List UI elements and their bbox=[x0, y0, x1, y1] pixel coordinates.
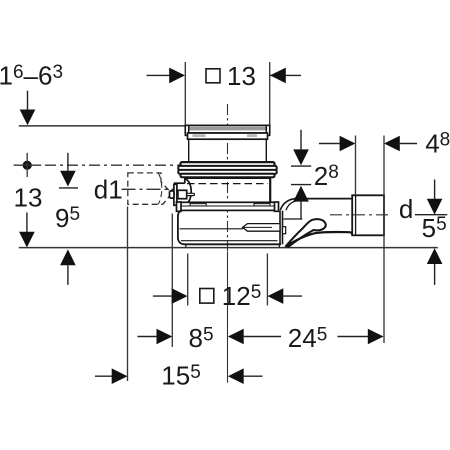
outlet fillet curves bbox=[280, 199, 294, 211]
bowl inner line bbox=[180, 228, 244, 230]
pipe centerline bbox=[330, 214, 390, 216]
d1 centerline dashes bbox=[122, 188, 178, 190]
left inlet clip bump bbox=[170, 191, 175, 198]
collar frame band bbox=[188, 133, 268, 139]
bowl foot ticks bbox=[185, 244, 187, 247]
dimension 5-5 bbox=[427, 180, 443, 285]
left inlet pin bbox=[178, 190, 187, 198]
dashed inlet box d1 bbox=[128, 173, 171, 204]
dimension 8-5 and 24-5 bbox=[138, 329, 384, 345]
left inlet socket bbox=[174, 182, 185, 184]
dimension 15-5 bbox=[95, 368, 263, 384]
13 arrow down bbox=[19, 213, 35, 248]
svg-text:13: 13 bbox=[227, 61, 256, 91]
bowl right wall bbox=[279, 211, 281, 245]
outlet scoop bbox=[286, 219, 326, 247]
arrow 16-63 down bbox=[20, 91, 36, 126]
water level dot marker bbox=[23, 161, 32, 170]
outlet opening inner line bbox=[284, 218, 303, 220]
dimension square-13 top bbox=[147, 68, 302, 84]
outlet rod bbox=[243, 224, 281, 232]
trap body walls bbox=[184, 177, 186, 183]
collar grate cap bbox=[185, 125, 269, 133]
clamp band bbox=[178, 202, 277, 210]
extension lines square-13 bbox=[184, 62, 186, 125]
dimension 4-8 bbox=[319, 136, 417, 152]
water level dashed line bbox=[45, 164, 180, 166]
svg-text:d: d bbox=[399, 194, 413, 224]
floor line bbox=[19, 125, 186, 127]
outlet pipe top bbox=[294, 198, 352, 200]
svg-text:d1: d1 bbox=[94, 174, 123, 204]
bottom reference line bbox=[19, 247, 438, 249]
dimension square 12-5 bbox=[153, 288, 302, 304]
pipe bottom flare bbox=[286, 232, 353, 246]
d tick line bbox=[415, 214, 447, 216]
d1 arrow down bbox=[59, 153, 78, 188]
label square 13 bbox=[206, 69, 220, 83]
9-5 arrow up bbox=[60, 249, 76, 285]
svg-text:13: 13 bbox=[14, 182, 43, 212]
extension lines bottom bbox=[127, 207, 129, 382]
dimension 2-8 bbox=[291, 130, 311, 219]
flange stack bbox=[181, 162, 275, 166]
collar walls bbox=[188, 139, 190, 162]
spigot bbox=[352, 195, 384, 235]
hidden dashed line in body bbox=[187, 183, 268, 185]
centerline vertical bbox=[227, 104, 229, 383]
bowl outline bbox=[178, 211, 281, 245]
bowl wall tab bbox=[283, 227, 286, 234]
